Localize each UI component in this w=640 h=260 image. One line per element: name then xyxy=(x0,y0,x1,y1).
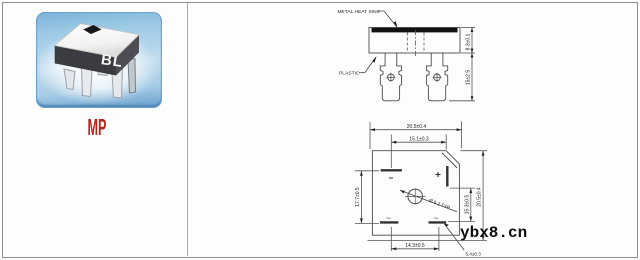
svg-text:15.3±0.5: 15.3±0.5 xyxy=(464,195,470,215)
svg-text:Ø 5.2 TYP.: Ø 5.2 TYP. xyxy=(428,198,452,212)
metal heat sink bar (filled black) xyxy=(372,28,458,33)
bottom-left (~) terminal pad xyxy=(380,221,399,223)
leg 4 xyxy=(112,66,123,98)
svg-text:8.3±0.1: 8.3±0.1 xyxy=(466,33,472,50)
inner chamfer line xyxy=(442,153,457,168)
svg-text:5.4±0.3: 5.4±0.3 xyxy=(466,252,482,257)
minus mark xyxy=(389,177,393,179)
leader to plastic body xyxy=(359,58,376,73)
body outline xyxy=(369,28,460,54)
leg 5 (right, long blade) xyxy=(128,59,136,94)
svg-text:14.3±0.5: 14.3±0.5 xyxy=(405,243,425,249)
white glare behind component xyxy=(40,30,158,104)
svg-text:~: ~ xyxy=(434,214,439,223)
leg 3 (center short) xyxy=(97,65,109,76)
extension lines xyxy=(461,27,475,29)
leg 1 (far left) xyxy=(64,69,75,90)
package left dark face xyxy=(55,46,116,76)
plus mark xyxy=(436,172,441,177)
hidden hole dashed lines xyxy=(407,30,424,57)
bottom dimension 14.3±0.5 xyxy=(391,227,439,251)
left dimension 17.7±0.5 xyxy=(355,171,379,224)
square body outline with chamfered corner xyxy=(372,151,459,236)
watermark ybx8.cn xyxy=(460,225,527,241)
hole leader line xyxy=(400,190,457,212)
left leg hole xyxy=(388,74,395,81)
square hole on top face xyxy=(83,25,101,34)
vertical divider between photo panel and drawing panel xyxy=(187,3,188,256)
MP type label xyxy=(62,116,131,139)
dimension line 15 xyxy=(471,53,473,101)
svg-text:20.5±0.4: 20.5±0.4 xyxy=(477,187,483,207)
leader 5.4±0.3 to bottom-right pad xyxy=(445,224,465,250)
center mounting hole xyxy=(408,189,423,204)
svg-text:~: ~ xyxy=(386,214,391,223)
svg-text:20.5±0.4: 20.5±0.4 xyxy=(407,124,427,130)
svg-text:17.7±0.5: 17.7±0.5 xyxy=(355,187,361,207)
bridge rectifier component photo (SVG) xyxy=(36,12,162,108)
leader to heat sink xyxy=(378,11,397,27)
bottom-right (~) terminal pad xyxy=(429,221,447,223)
svg-text:15.1±0.3: 15.1±0.3 xyxy=(409,137,429,143)
svg-text:PLASTIC: PLASTIC xyxy=(339,71,360,77)
dimension line 8.3 xyxy=(471,28,473,54)
right (+) terminal pad xyxy=(446,166,448,187)
right outer dimension 20.5±0.4 xyxy=(368,151,488,241)
left (-) terminal pad xyxy=(381,169,402,171)
right inner dimension 15.3±0.5 xyxy=(448,188,475,221)
product photo panel (blue rounded box) xyxy=(36,12,162,108)
top dimension 20.5±0.4 xyxy=(370,121,462,149)
svg-text:METAL HEAT SINK: METAL HEAT SINK xyxy=(338,9,381,15)
left faston leg outline xyxy=(380,53,401,101)
right leg hole xyxy=(434,74,441,81)
package front dark face with BL marking xyxy=(116,35,139,76)
side view right dimensions xyxy=(449,28,475,101)
leg 2 xyxy=(82,68,93,97)
package top face (white) xyxy=(55,24,139,58)
inner top dimension 15.1±0.3 xyxy=(391,135,446,169)
svg-text:15±2.5: 15±2.5 xyxy=(466,70,472,85)
right faston leg outline xyxy=(426,53,447,101)
